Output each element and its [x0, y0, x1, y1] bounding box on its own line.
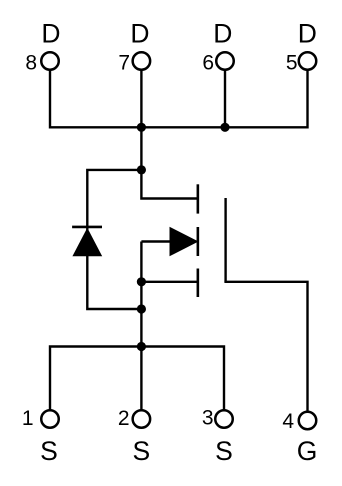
pin 1 terminal: [41, 410, 59, 428]
junction bottom rail node: [137, 342, 146, 351]
body diode D1 cathode bar: [72, 226, 102, 229]
MOSFET Q1 channel middle segment (body): [197, 227, 200, 256]
body diode D1 triangle: [72, 228, 102, 256]
svg-text:4: 4: [282, 410, 294, 433]
pin 7 terminal: [133, 52, 151, 70]
pin 4 terminal: [299, 412, 317, 430]
junction rail-pin7: [137, 123, 146, 132]
wire pin7 trunk to node: [140, 61, 142, 170]
junction diode cathode node: [137, 165, 146, 174]
wire drain lead to MOSFET: [141, 170, 197, 199]
svg-text:3: 3: [202, 407, 214, 430]
svg-text:1: 1: [22, 407, 34, 430]
wire source lead to MOSFET: [141, 281, 197, 283]
svg-text:D: D: [213, 19, 232, 49]
svg-text:S: S: [133, 436, 151, 466]
pin 6 terminal: [216, 52, 234, 70]
svg-text:G: G: [297, 436, 318, 466]
pin 8 terminal: [41, 52, 59, 70]
svg-text:S: S: [215, 436, 233, 466]
pin 2 terminal: [133, 410, 151, 428]
svg-text:D: D: [130, 19, 149, 49]
svg-text:S: S: [40, 436, 58, 466]
junction rail-pin6: [220, 123, 229, 132]
MOSFET Q1 gate bar: [224, 198, 226, 282]
svg-text:D: D: [298, 19, 317, 49]
wire bottom source rail (pin1 to pin3): [50, 347, 224, 420]
svg-text:8: 8: [25, 52, 37, 75]
wire pin6 lead: [224, 61, 226, 127]
svg-text:7: 7: [118, 52, 130, 75]
MOSFET Q1 channel bottom segment (source): [197, 269, 200, 298]
svg-text:6: 6: [202, 52, 214, 75]
MOSFET Q1 body arrow: [170, 227, 199, 257]
MOSFET Q1 channel top segment (drain): [197, 184, 200, 213]
svg-text:2: 2: [118, 407, 130, 430]
svg-text:D: D: [41, 19, 60, 49]
junction source lead node: [137, 277, 146, 286]
wire top drain rail (pin8 to pin5): [50, 61, 308, 127]
pin 3 terminal: [215, 410, 233, 428]
wire arrow lead: [141, 240, 173, 242]
junction diode anode node: [137, 304, 146, 313]
pin 5 terminal: [299, 52, 317, 70]
wire gate-side trunk down to pin2: [140, 242, 142, 420]
svg-text:5: 5: [286, 52, 298, 75]
wire diode branch loop: [87, 170, 141, 309]
wire gate to pin4: [224, 282, 307, 421]
